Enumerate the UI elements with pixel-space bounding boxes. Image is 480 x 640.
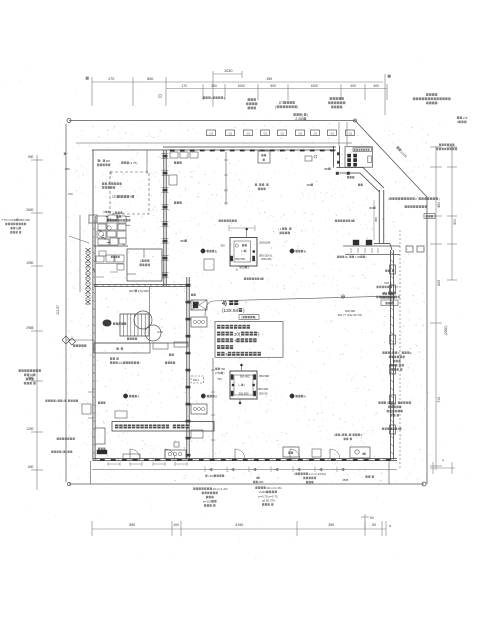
svg-text:7'7X7.CK38: 7'7X7.CK38 (1, 218, 17, 222)
svg-text:300-690: 300-690 (240, 375, 250, 379)
svg-text:): ) (63, 399, 64, 403)
svg-text:350,590: 350,590 (235, 257, 246, 261)
svg-text:7·25: 7·25 (355, 255, 361, 259)
svg-text:(: ( (114, 211, 115, 215)
svg-text:19 m=1.4%: 19 m=1.4% (213, 487, 229, 491)
svg-text:G1: G1 (314, 131, 318, 135)
svg-text:a: a (442, 458, 444, 462)
svg-text:1F2: 1F2 (279, 101, 285, 105)
svg-text:2985: 2985 (26, 326, 33, 330)
svg-text:G1: G1 (331, 131, 335, 135)
svg-text:A: A (215, 395, 217, 399)
svg-text:(350,35): (350,35) (261, 257, 271, 261)
svg-text:28A: 28A (258, 480, 263, 484)
svg-text:1000: 1000 (311, 84, 319, 88)
svg-text:170: 170 (108, 77, 114, 81)
svg-text:(: ( (62, 450, 63, 454)
svg-text:·: · (119, 347, 120, 351)
svg-text:450: 450 (437, 202, 441, 208)
svg-text:9/8: 9/8 (106, 159, 111, 163)
svg-text:400: 400 (373, 84, 379, 88)
svg-text:150: 150 (266, 77, 272, 81)
svg-text:G1: G1 (349, 131, 353, 135)
svg-text:): ) (110, 210, 111, 214)
svg-text:·: · (288, 227, 289, 231)
svg-text:(: ( (211, 96, 212, 100)
svg-text:300(: 300( (239, 265, 245, 269)
svg-text:300: 300 (369, 206, 374, 210)
svg-text:500: 500 (211, 84, 217, 88)
svg-text:2600: 2600 (26, 208, 33, 212)
svg-text:): ) (243, 308, 245, 313)
svg-text:(350)298: (350)298 (259, 241, 271, 245)
svg-text:G1: G1 (247, 131, 251, 135)
svg-text:×150: ×150 (208, 474, 215, 478)
svg-text:G1: G1 (229, 131, 233, 135)
svg-text:400: 400 (350, 84, 356, 88)
svg-text:(1.75): (1.75) (130, 161, 138, 165)
svg-text:G1: G1 (281, 131, 285, 135)
svg-text:350,690: 350,690 (258, 387, 269, 391)
svg-text:50: 50 (372, 523, 376, 527)
svg-text:600: 600 (28, 465, 34, 469)
svg-text:°: ° (67, 152, 69, 156)
svg-text:1000: 1000 (238, 84, 246, 88)
svg-text:518.2: 518.2 (384, 281, 392, 285)
svg-text:50: 50 (370, 516, 374, 520)
svg-text:350: 350 (306, 183, 311, 187)
svg-text:450B: 450B (342, 478, 348, 482)
svg-text:450: 450 (374, 217, 378, 222)
svg-text:625: 625 (437, 280, 441, 286)
svg-text:): ) (255, 315, 256, 319)
svg-text:750,: 750, (217, 377, 222, 381)
svg-text:300(: 300( (129, 289, 135, 293)
svg-text:): ) (123, 211, 124, 215)
svg-text:4): 4) (222, 301, 227, 307)
svg-text:500: 500 (270, 84, 276, 88)
svg-text:(~: (~ (239, 383, 242, 387)
svg-text:a: a (389, 524, 391, 528)
svg-text:30: 30 (30, 373, 34, 377)
svg-text:300,77 (15a 30.7%): 300,77 (15a 30.7%) (338, 313, 363, 317)
svg-text:): ) (244, 383, 245, 387)
svg-text:2: 2 (415, 197, 417, 201)
svg-text:±0(: ±0( (234, 332, 241, 337)
svg-text:550: 550 (129, 523, 135, 527)
svg-text:·: · (258, 183, 259, 187)
svg-text:300,2: 300,2 (193, 379, 200, 382)
svg-text:170: 170 (181, 84, 187, 88)
svg-text:): ) (439, 197, 440, 201)
svg-text:): ) (297, 105, 298, 109)
svg-text:715: 715 (437, 397, 441, 403)
svg-text:): ) (66, 450, 67, 454)
svg-text:·: · (265, 183, 266, 187)
svg-text:19 m=1.4%: 19 m=1.4% (266, 486, 282, 490)
svg-text:§: § (236, 267, 238, 271)
svg-text:1F2: 1F2 (112, 195, 118, 199)
svg-text:(: ( (387, 401, 388, 405)
svg-text:+: + (130, 195, 132, 199)
svg-text:)(T)(350): )(T)(350) (138, 289, 149, 293)
svg-text:500: 500 (147, 77, 153, 81)
svg-text:(: ( (140, 259, 141, 263)
svg-text:1200: 1200 (26, 427, 33, 431)
svg-text:(: ( (294, 472, 295, 476)
svg-text:350,590: 350,590 (239, 392, 249, 396)
svg-text:900: 900 (453, 219, 457, 225)
svg-text:G1: G1 (264, 131, 268, 135)
svg-text:(750: (750 (215, 371, 221, 375)
svg-text:4.50: 4.50 (157, 330, 163, 334)
svg-text:Z,480: Z,480 (295, 117, 303, 121)
svg-text:350: 350 (220, 244, 225, 248)
svg-text:1.0 m=1/100): 1.0 m=1/100) (309, 472, 326, 476)
svg-text:700: 700 (68, 192, 73, 196)
svg-text:·: · (391, 269, 392, 273)
svg-text:(7: (7 (103, 210, 106, 214)
svg-text:B: B (304, 250, 306, 254)
svg-text:7'37: 7'37 (393, 285, 399, 289)
svg-text:100: 100 (173, 523, 179, 527)
svg-text:I: I (100, 159, 101, 163)
svg-text:900: 900 (28, 155, 34, 159)
svg-text:390: 390 (328, 523, 334, 527)
svg-text:)!: )! (394, 401, 396, 405)
svg-text:1030: 1030 (224, 69, 232, 73)
svg-text:.: . (400, 295, 401, 299)
svg-text:(: ( (56, 399, 57, 403)
svg-text:350: 350 (324, 167, 329, 171)
svg-text:A: A (304, 395, 306, 399)
svg-text:350,590: 350,590 (259, 374, 270, 378)
svg-text:300: 300 (65, 167, 70, 171)
svg-text:G1: G1 (210, 131, 214, 135)
svg-text:30(: 30( (118, 361, 122, 365)
svg-text:(: ( (391, 351, 392, 355)
svg-text:(: ( (241, 315, 242, 319)
svg-text:(: ( (334, 433, 335, 437)
svg-text:): ) (140, 361, 141, 365)
svg-text:φ150 370: φ150 370 (262, 499, 275, 503)
svg-text:): ) (224, 96, 225, 100)
svg-text:): ) (366, 255, 367, 259)
svg-text:1/100: 1/100 (399, 150, 408, 159)
svg-text:(~: (~ (241, 249, 244, 253)
svg-text:): ) (224, 371, 225, 375)
svg-text:(E: (E (345, 255, 348, 259)
svg-text:φ=150: φ=150 (203, 500, 212, 504)
svg-text:(13X.94: (13X.94 (222, 308, 239, 313)
svg-text:£: £ (410, 351, 412, 355)
svg-text:11137: 11137 (56, 305, 60, 315)
svg-text:): ) (246, 249, 247, 253)
svg-text:4150: 4150 (235, 523, 243, 527)
svg-text:): ) (348, 433, 349, 437)
svg-text:178: 178 (462, 116, 467, 120)
svg-text:): ) (307, 113, 308, 117)
svg-text:(2930): (2930) (444, 325, 448, 335)
svg-text:B: B (215, 250, 217, 254)
svg-text:1950: 1950 (26, 261, 33, 265)
svg-text:85A,500: 85A,500 (19, 218, 30, 222)
svg-text:G1: G1 (299, 131, 303, 135)
svg-text:A: A (137, 395, 139, 399)
svg-text:(: ( (341, 433, 342, 437)
svg-text:350,59: 350,59 (259, 392, 268, 396)
svg-text:( 1: ( 1 (278, 227, 282, 231)
svg-text:): ) (258, 332, 260, 337)
svg-text:)!: )! (398, 351, 400, 355)
svg-text:350: 350 (180, 239, 185, 243)
